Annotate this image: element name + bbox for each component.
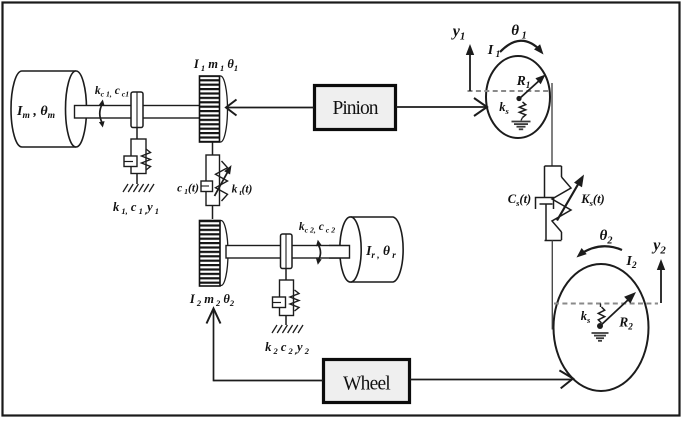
center pivot circle 2: [597, 323, 603, 329]
label ks circle 2: [581, 309, 591, 325]
shaft 2 gear-to-load: [226, 246, 350, 259]
label R1: [516, 73, 531, 90]
label kc1 cc1: [95, 85, 129, 99]
label c1(t): [177, 183, 199, 197]
label theta1: [511, 23, 526, 41]
arrow pinion box to gear 1: [226, 100, 314, 116]
variable stiffness arrow kt: [215, 165, 232, 196]
label k1 c1 y1: [113, 200, 159, 216]
ground under bearing 1: [123, 184, 154, 192]
svg-text:k t(t): k t(t): [232, 184, 253, 198]
bearing spring ks circle 2: [598, 304, 604, 324]
label y1: [451, 23, 466, 43]
label kt(t): [232, 184, 253, 198]
gear 2 wheel gear: [200, 221, 229, 287]
Wheel box: [324, 360, 410, 403]
dashed centerline circle 2: [554, 303, 658, 305]
bearing 2 spring-damper: [273, 269, 300, 326]
label k2 c2 y2: [265, 340, 310, 356]
load cylinder Ir: [329, 217, 403, 282]
Pinion box: [315, 86, 396, 130]
label Im theta-m: [16, 104, 55, 121]
shaft 1 motor-to-gear: [75, 106, 201, 119]
ground stack circle 2: [592, 333, 609, 341]
y2 axis arrow: [657, 259, 665, 303]
label theta2: [600, 228, 613, 246]
arrow pinion box to base circle 1: [396, 98, 487, 116]
bearing spring ks circle 1: [519, 102, 525, 121]
label y2: [651, 237, 666, 257]
coupling flange 2: [281, 234, 293, 269]
label kc2 cc2: [299, 221, 335, 235]
mesh spring-damper Cs Ks on line of action: [536, 166, 572, 241]
label Cs(t): [508, 192, 531, 208]
base circle 2: [554, 264, 649, 391]
theta1 rotation arc: [500, 41, 544, 55]
arrow wheel box to base circle 2: [410, 370, 573, 388]
gear mesh spring-damper ct kt: [201, 143, 228, 220]
svg-text:Ks(t): Ks(t): [580, 192, 604, 208]
svg-text:Wheel: Wheel: [343, 374, 391, 395]
center pivot circle 1: [516, 96, 521, 101]
gear 1 pinion wheel: [200, 76, 228, 142]
ground stack circle 1: [512, 122, 531, 130]
radius arrow R2: [600, 292, 636, 326]
svg-text:Cs(t): Cs(t): [508, 192, 531, 208]
bearing 1 spring-damper: [124, 128, 151, 185]
line of action upper segment: [551, 83, 553, 166]
svg-text:c 1(t): c 1(t): [177, 183, 199, 197]
arrow wheel box to gear 2: [207, 309, 324, 382]
coupling flange 1: [131, 92, 143, 128]
theta2 rotation arc: [577, 246, 623, 257]
label R2: [618, 315, 633, 332]
torsion arrow on shaft 2: [316, 240, 322, 265]
label I1: [487, 43, 501, 60]
label I2: [625, 254, 636, 271]
motor cylinder Im: [11, 71, 87, 147]
base circle 1: [486, 56, 550, 138]
label Ir theta-r: [365, 243, 396, 260]
label I1 m1 theta1: [193, 57, 238, 73]
y1 axis arrow: [466, 44, 474, 91]
ground under bearing 2: [272, 325, 303, 333]
torsion arrow on shaft 1: [99, 100, 105, 128]
label Ks(t): [580, 192, 604, 208]
variable stiffness arrow Ks: [557, 175, 584, 221]
radius arrow R1: [519, 75, 546, 100]
label ks circle 1: [499, 100, 509, 116]
svg-text:Pinion: Pinion: [333, 98, 379, 119]
label I2 m2 theta2: [189, 292, 235, 308]
dashed centerline circle 1: [468, 90, 551, 92]
line of action lower segment: [551, 241, 553, 330]
